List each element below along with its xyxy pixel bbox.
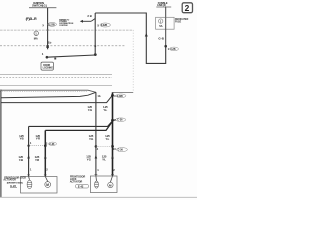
up arrow on riser bbox=[145, 33, 148, 37]
svg-text:Y-G: Y-G bbox=[87, 158, 91, 162]
bus wire bbox=[46, 53, 97, 58]
svg-text:1: 1 bbox=[35, 32, 37, 36]
wire fusible link to fuse bbox=[165, 7, 167, 17]
svg-text:M: M bbox=[46, 183, 49, 187]
wire size oval 0.22B bbox=[48, 23, 57, 27]
diagonal to arrow bbox=[91, 19, 95, 22]
svg-text:Y-R: Y-R bbox=[36, 137, 40, 141]
svg-text:y: y bbox=[42, 23, 44, 27]
wire x3 down bbox=[95, 92, 97, 176]
svg-text:ACTUATOR: ACTUATOR bbox=[70, 180, 83, 183]
junction blob on ignition wire bbox=[46, 45, 48, 48]
box2 text block bbox=[70, 176, 86, 184]
svg-text:2: 2 bbox=[113, 168, 115, 172]
dotted separator bbox=[0, 90, 87, 92]
wire W2 lower from left bbox=[1, 92, 96, 98]
dashed separator bbox=[0, 77, 112, 79]
junction dot + pin 1 + oval 0.2B bbox=[164, 45, 178, 51]
svg-text:0.22B: 0.22B bbox=[48, 24, 54, 27]
wire x2 down bbox=[44, 130, 46, 176]
connector pins x3 x4 + oval bbox=[95, 145, 128, 152]
dotted connector line x1-x2 bbox=[29, 145, 46, 147]
dedicated fuse text bbox=[175, 18, 189, 23]
svg-text:10: 10 bbox=[113, 147, 116, 151]
tick where riser crosses dashed line bbox=[94, 45, 96, 47]
wire code labels above connector row bbox=[19, 134, 110, 141]
svg-text:Y-G: Y-G bbox=[89, 137, 93, 141]
svg-text:C-36: C-36 bbox=[117, 119, 123, 122]
dashed section line bbox=[0, 45, 126, 47]
bottom page border bbox=[0, 196, 197, 198]
grey dotted feed line from left page edge bbox=[0, 29, 133, 31]
svg-text:MA: MA bbox=[34, 36, 38, 40]
dedicated fuse box bbox=[156, 17, 175, 29]
svg-text:5A: 5A bbox=[159, 24, 162, 28]
dotted connector line x3-x4 bbox=[96, 146, 113, 148]
pin numbers above boxes bbox=[30, 168, 115, 172]
svg-text:2: 2 bbox=[46, 168, 48, 172]
riser wire to arrow junction bbox=[94, 13, 96, 55]
tick where wire crosses grey line bbox=[47, 29, 49, 31]
svg-text:2 B: 2 B bbox=[87, 14, 91, 18]
svg-text:2: 2 bbox=[185, 3, 190, 13]
svg-text:Y-R: Y-R bbox=[35, 158, 39, 162]
svg-text:1: 1 bbox=[30, 168, 32, 172]
tick on bus bbox=[54, 58, 56, 60]
arrow to other page bbox=[80, 20, 91, 23]
wire W3 from left bbox=[1, 95, 113, 102]
component box2 front door lock actuator bbox=[90, 176, 117, 193]
svg-text:ACTUATOR: ACTUATOR bbox=[3, 179, 16, 182]
svg-text:C-36: C-36 bbox=[118, 149, 124, 152]
wire x1 down bbox=[28, 126, 30, 176]
branch2 to x2 bbox=[45, 121, 112, 130]
page ref box 2 bbox=[182, 3, 192, 13]
box1 entry stubs bbox=[28, 177, 31, 180]
box2 solenoid symbol bbox=[95, 181, 99, 188]
svg-text:(F)2L-R: (F)2L-R bbox=[26, 17, 37, 21]
connector circle MA bbox=[34, 31, 39, 40]
svg-text:Y-B: Y-B bbox=[20, 137, 24, 141]
grey separator 2 bbox=[0, 85, 112, 87]
svg-text:Y-B: Y-B bbox=[19, 158, 23, 162]
svg-text:Y-L: Y-L bbox=[103, 108, 107, 112]
svg-text:5: 5 bbox=[97, 23, 99, 27]
wire from ignition switch bbox=[47, 8, 49, 50]
wire code labels below connector row bbox=[18, 155, 106, 162]
junction dot W3/x4 bbox=[111, 94, 114, 97]
svg-text:1b: 1b bbox=[48, 41, 52, 45]
feed segment to x4 bbox=[113, 91, 134, 93]
svg-text:LOCKING: LOCKING bbox=[43, 67, 54, 70]
component box1 door lock actuator driver side bbox=[21, 177, 58, 194]
label M + oval C-36 bbox=[114, 118, 126, 122]
refer-to text block bbox=[59, 19, 73, 27]
svg-text:FUSE: FUSE bbox=[175, 21, 182, 23]
box1 motor symbol bbox=[45, 182, 51, 188]
svg-text:Y-L: Y-L bbox=[102, 158, 106, 162]
svg-text:0.22B: 0.22B bbox=[101, 24, 107, 27]
fusible link label bbox=[156, 2, 171, 7]
connector pins x1 x2 + oval bbox=[30, 141, 57, 146]
ignition switch label bbox=[29, 1, 56, 8]
junction dot branches/x4 bbox=[111, 119, 114, 122]
joint mini box bbox=[41, 62, 53, 70]
pin 5 + oval 0.22B bbox=[97, 23, 110, 27]
svg-text:0.22B: 0.22B bbox=[117, 95, 123, 98]
svg-text:M: M bbox=[109, 183, 112, 187]
wire W1 upper from left bbox=[1, 90, 96, 92]
svg-text:2: 2 bbox=[46, 141, 48, 145]
svg-text:1: 1 bbox=[42, 52, 44, 56]
junction blobs on x1 x2 at connector bbox=[27, 145, 29, 147]
box2 entry stubs bbox=[95, 176, 98, 181]
svg-text:1: 1 bbox=[30, 141, 32, 145]
grey separator bbox=[0, 74, 112, 76]
pin ticks at box entries bbox=[27, 173, 114, 176]
svg-text:SYSTEM: SYSTEM bbox=[59, 25, 67, 27]
label 4 + oval 0.22B bbox=[114, 94, 126, 98]
box1 text block bbox=[3, 176, 26, 184]
svg-text:G-B: G-B bbox=[158, 37, 164, 41]
svg-text:Y-G: Y-G bbox=[88, 108, 92, 112]
svg-text:1b: 1b bbox=[97, 94, 100, 98]
svg-text:SWITCH(I.G.): SWITCH(I.G.) bbox=[32, 4, 47, 8]
branch1 to x1 bbox=[29, 121, 113, 127]
wire x4 main feed down bbox=[112, 92, 114, 176]
svg-text:C-36: C-36 bbox=[49, 143, 55, 146]
box2 motor symbol bbox=[108, 182, 113, 187]
top feed wire loop to fusible link branch bbox=[95, 13, 166, 63]
svg-text:4: 4 bbox=[97, 147, 99, 151]
wire below fuse bbox=[165, 29, 167, 46]
box2 connector ref E-42 bbox=[76, 184, 89, 188]
svg-text:E-42: E-42 bbox=[78, 184, 84, 188]
svg-text:0.2B: 0.2B bbox=[170, 48, 175, 51]
direction arrows on wires bbox=[27, 155, 114, 159]
svg-text:1: 1 bbox=[160, 19, 162, 23]
box1 solenoid symbol bbox=[27, 180, 32, 189]
box1 connector ref E-23 bbox=[10, 184, 17, 188]
wire code labels upper x3 x4 bbox=[87, 105, 108, 112]
left page border bbox=[0, 90, 2, 198]
svg-text:E-23: E-23 bbox=[10, 184, 16, 188]
svg-text:1: 1 bbox=[97, 168, 99, 172]
svg-text:Y-L: Y-L bbox=[106, 137, 110, 141]
